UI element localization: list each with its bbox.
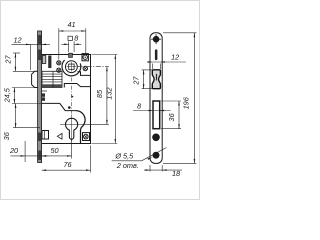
svg-text:27: 27: [132, 76, 141, 86]
tiny marker arrow on centerline: [72, 95, 74, 98]
svg-text:50: 50: [50, 146, 58, 155]
dim 27 (latch height): [132, 70, 153, 89]
dim 20 bottom left: [9, 141, 48, 162]
dim 50: [42, 140, 72, 159]
dim 18 (faceplate width): [144, 165, 182, 178]
bottom screw hole: [153, 152, 160, 159]
dim 36 (deadbolt cutout height): [161, 101, 181, 129]
svg-text:85: 85: [95, 89, 104, 98]
step lines below follower right: [78, 72, 91, 76]
bottom-left bracket: [42, 131, 49, 140]
svg-text:36: 36: [167, 112, 176, 121]
lock body outline: [42, 55, 91, 144]
svg-text:196: 196: [182, 96, 191, 109]
dim square 8: [62, 34, 82, 52]
deadbolt shelf: [42, 103, 76, 110]
small triangle marker: [57, 133, 62, 139]
dim 132: [92, 55, 118, 144]
dim 27 left: [3, 53, 38, 71]
faceplate bar (side view): [38, 31, 42, 163]
ledge lines: [64, 84, 90, 88]
svg-text:76: 76: [63, 160, 72, 169]
top-left guide block: [42, 56, 46, 64]
svg-text:41: 41: [67, 20, 75, 29]
cylinder screw hole: [152, 134, 160, 142]
svg-text:27: 27: [3, 55, 12, 65]
follower tab: [69, 53, 73, 57]
dim 24,5 left: [2, 87, 41, 103]
border frame: [1, 1, 200, 200]
dim 12 (latch protrusion): [12, 36, 51, 70]
latch block inside body: [42, 71, 62, 87]
latch bolt protrusion (side): [32, 71, 38, 87]
dim 85: [78, 67, 109, 125]
faceplate front outline: [150, 33, 162, 164]
small dot above shelf: [68, 106, 71, 109]
dim 76: [42, 146, 91, 173]
follower square hole: [67, 62, 77, 72]
cylinder (europrofile): [66, 118, 78, 139]
svg-text:20: 20: [9, 146, 18, 155]
hole callout leader: [112, 148, 167, 171]
svg-text:2 отв.: 2 отв.: [116, 161, 139, 170]
deadbolt cutout: [153, 101, 160, 129]
svg-text:24,5: 24,5: [2, 87, 11, 103]
svg-text:36: 36: [2, 131, 11, 140]
svg-text:Ø 5,5: Ø 5,5: [114, 151, 134, 160]
screw S2 (left lower diamond): [57, 68, 61, 72]
svg-text:12: 12: [171, 52, 179, 61]
dim 36 left: [2, 104, 40, 141]
cylinder centerlines: [60, 123, 85, 125]
right X screw: [83, 66, 87, 70]
dim 12 (latch width): [147, 52, 186, 69]
dim 8 (deadbolt cutout width): [133, 101, 171, 111]
svg-text:18: 18: [172, 169, 181, 178]
dim 196 (faceplate height): [163, 33, 196, 164]
mid line: [42, 90, 47, 92]
adjustment slot: [155, 49, 158, 60]
follower circle: [66, 61, 78, 73]
spring bar: [48, 56, 51, 69]
svg-text:12: 12: [13, 36, 21, 45]
bottom-right screw bracket: [83, 133, 90, 141]
mid small block: [42, 93, 45, 96]
screw S1 (left upper diamond): [57, 61, 61, 65]
top-right screw bracket: [82, 54, 88, 61]
latch bolt front: [152, 70, 160, 89]
top screw hole: [151, 34, 161, 44]
svg-text:132: 132: [105, 87, 114, 99]
vertical dashed centerline: [71, 78, 73, 114]
follower housing arc: [62, 60, 81, 76]
dim 41: [59, 20, 86, 60]
